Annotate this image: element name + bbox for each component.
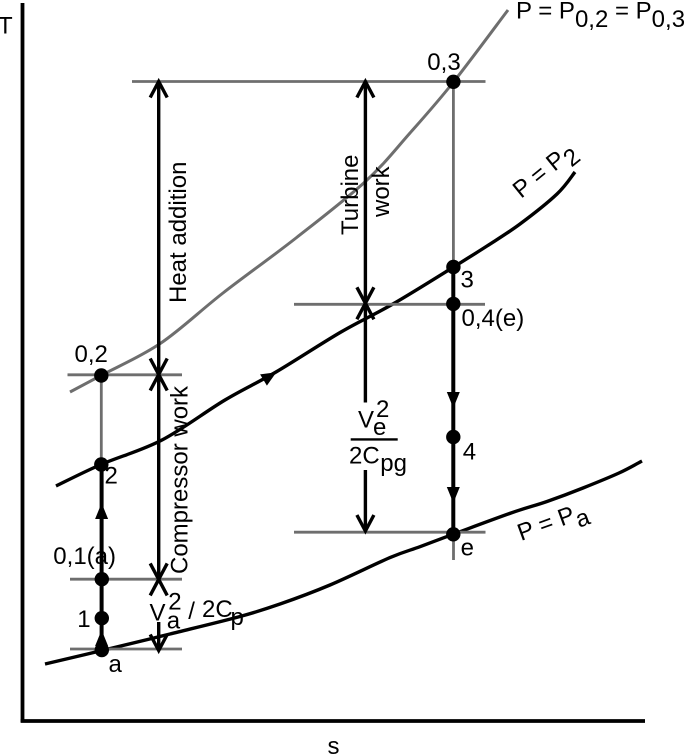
svg-text:pg: pg	[380, 450, 407, 477]
curve label P = P2 (rotated)	[508, 137, 586, 209]
state point 0,3	[446, 75, 460, 89]
isobar curve P = P2 (black)	[56, 172, 575, 486]
stagnation level line through 0,3	[132, 80, 486, 83]
svg-text:T: T	[0, 13, 13, 40]
svg-text:e: e	[461, 535, 474, 562]
tick below point e	[452, 534, 455, 560]
flow arrowhead on P2 curve between 2 and 3	[260, 372, 276, 385]
state point 1	[95, 611, 109, 625]
svg-text:Heat addition: Heat addition	[165, 162, 192, 303]
measure label: work (rotated)	[368, 165, 395, 218]
svg-text:P = P0,2 = P0,3: P = P0,2 = P0,3	[516, 0, 685, 33]
static level line through a	[70, 648, 182, 651]
measure label: Va^2 / 2Cp	[150, 589, 244, 635]
svg-text:P = Pa: P = Pa	[514, 496, 594, 553]
flow arrowhead between 0,4(e) and 4	[447, 392, 460, 408]
wire: gray vertical 0,3 to 3	[452, 82, 455, 267]
svg-text:0,4(e): 0,4(e)	[462, 305, 525, 332]
svg-text:p: p	[231, 604, 244, 631]
measure arrow: compressor work (x=158.7, y 374.5..579.4)	[150, 375, 167, 596]
isobar curve P = Pa (ambient, black)	[45, 461, 642, 664]
measure label: Turbine (rotated)	[337, 155, 364, 235]
svg-text:V: V	[358, 407, 374, 434]
measure arrow: Ve^2/2Cpg lower segment with arrowhead	[357, 470, 374, 531]
svg-text:a: a	[167, 608, 181, 635]
svg-text:Turbine: Turbine	[337, 155, 364, 235]
svg-text:V: V	[150, 600, 166, 627]
process line 3 to e (expansion, black)	[451, 267, 455, 534]
svg-text:1: 1	[77, 606, 90, 633]
flow arrowhead between 4 and e	[447, 487, 460, 503]
y-axis (T axis)	[21, 3, 25, 722]
svg-text:a: a	[109, 651, 123, 678]
svg-text:4: 4	[463, 439, 476, 466]
measure label: Heat addition (rotated)	[165, 162, 192, 303]
state point 0,1(a)	[95, 572, 109, 586]
svg-text:2C: 2C	[349, 442, 380, 469]
measure label: Compressor work (rotated)	[167, 385, 194, 574]
state point 0,4(e)	[446, 297, 460, 311]
svg-text:0,3: 0,3	[427, 49, 460, 76]
state point 4	[446, 430, 460, 444]
state point 2	[94, 457, 108, 471]
svg-text:0,2: 0,2	[75, 341, 108, 368]
state point 3	[446, 260, 460, 274]
svg-text:e: e	[373, 414, 386, 441]
svg-text:3: 3	[461, 267, 474, 294]
svg-text:0,1(a): 0,1(a)	[53, 543, 116, 570]
svg-text:2C: 2C	[202, 596, 233, 623]
isobar curve P = P0,2 = P0,3 (stagnation, gray)	[70, 10, 508, 392]
svg-text:Compressor work: Compressor work	[167, 385, 194, 574]
svg-text:/: /	[188, 598, 195, 625]
measure arrow: Ve^2/2Cpg upper segment (x=365.4, y 303.8..402.5)	[364, 304, 367, 403]
stagnation level line through 0,4(e)	[294, 303, 485, 306]
measure arrow: Va^2/2Cp (x=158.7, shaft below label only)	[150, 622, 167, 651]
wire: gray vertical 2 to 0,2	[100, 376, 103, 465]
state point a	[95, 643, 109, 657]
process line a to 2 (compression, black)	[100, 465, 104, 651]
svg-text:2: 2	[105, 463, 118, 490]
stagnation level line through 0,2	[68, 373, 183, 376]
static level line through e	[294, 531, 486, 534]
stagnation level line through 0,1(a)	[70, 578, 182, 581]
svg-text:work: work	[368, 165, 395, 218]
x-axis (s axis)	[21, 719, 645, 723]
flow arrowhead between a and 1	[95, 630, 108, 646]
curve label P = Pa (rotated)	[514, 496, 594, 553]
svg-text:s: s	[328, 733, 340, 755]
measure arrow: turbine work (x=365.4, y 81..303.8)	[357, 81, 374, 319]
state point 0,2	[94, 368, 108, 382]
state point e	[446, 527, 460, 541]
measure label: fraction Ve^2 / 2Cpg	[349, 396, 407, 477]
flow arrowhead between 0,1(a) and 2	[95, 503, 108, 519]
measure arrow: heat addition (x=158.7, y 81..374.5)	[150, 81, 167, 391]
